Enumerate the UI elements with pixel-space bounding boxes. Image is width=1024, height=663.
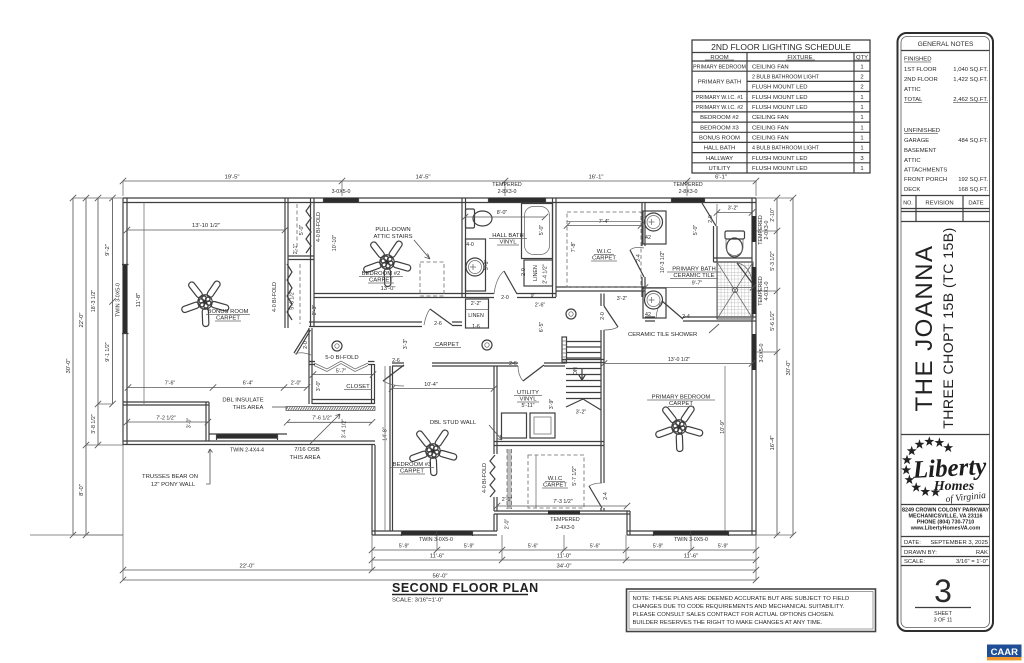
window tempered 4-0x1-0 right wall [752,267,756,314]
svg-text:FRONT PORCH: FRONT PORCH [904,177,947,183]
svg-text:14'-8": 14'-8" [383,427,389,441]
svg-text:DRAWN BY:: DRAWN BY: [904,550,937,556]
left dimension 30-0 [72,198,74,535]
svg-text:REVISION: REVISION [925,201,953,207]
svg-text:168 SQ.FT.: 168 SQ.FT. [958,187,988,193]
bonus room dim 13-10 [127,229,285,231]
utility top wall [497,363,518,366]
svg-text:TRUSSES BEAR ON: TRUSSES BEAR ON [142,474,198,480]
svg-text:14'-5": 14'-5" [415,175,430,181]
svg-text:4-0 BI-FOLD: 4-0 BI-FOLD [316,212,322,242]
osb insulated wall hatch [286,407,375,411]
lower left exterior wall [123,441,375,445]
svg-text:3-0X5-0: 3-0X5-0 [332,189,351,195]
svg-text:2 BULB BATHROOM LIGHT: 2 BULB BATHROOM LIGHT [752,75,820,81]
svg-text:UTILITY: UTILITY [517,390,539,396]
svg-text:BONUS ROOM: BONUS ROOM [208,309,249,315]
toilet room bottom wall [714,258,753,262]
svg-text:5'-11": 5'-11" [521,403,534,409]
svg-text:10'-3 1/2": 10'-3 1/2" [660,251,666,273]
svg-text:TWIN 3-0X5-0: TWIN 3-0X5-0 [674,537,708,543]
svg-text:FINISHED: FINISHED [904,57,932,63]
svg-text:BEDROOM #2: BEDROOM #2 [362,271,401,277]
svg-text:2'-2": 2'-2" [471,301,482,307]
svg-text:HALLWAY: HALLWAY [706,156,733,162]
svg-text:SHEET: SHEET [934,611,952,617]
svg-text:2-0: 2-0 [708,215,714,223]
window twin 3-0x5-0 left wall [123,265,127,333]
svg-text:4 BULB BATHROOM LIGHT: 4 BULB BATHROOM LIGHT [752,146,820,152]
svg-text:ATTIC: ATTIC [904,87,921,93]
bottom dimension row 22-0 34-0 [123,569,756,571]
date row [901,537,990,547]
svg-text:1: 1 [860,95,863,101]
svg-text:34'-0": 34'-0" [556,564,571,570]
window 3-0x5-0 right wall [752,334,756,370]
svg-text:192 SQ.FT.: 192 SQ.FT. [958,177,988,183]
pony step wall [206,402,209,441]
svg-text:CERAMIC TILE SHOWER: CERAMIC TILE SHOWER [628,332,697,338]
bottom dimension row 11-6 [372,559,756,561]
svg-text:PRIMARY BATH: PRIMARY BATH [698,80,742,86]
wic step wall [494,514,497,531]
svg-text:1: 1 [860,115,863,121]
svg-text:TWIN 3-0X5-0: TWIN 3-0X5-0 [419,537,453,543]
door utility 2-6 [523,365,544,381]
svg-text:CERAMIC TILE: CERAMIC TILE [673,273,714,279]
flush mount light nook [332,341,342,351]
note box [627,589,876,632]
svg-text:CHANGES DUE TO CODE REQUIREMEN: CHANGES DUE TO CODE REQUIREMENTS AND MEC… [633,604,845,610]
svg-text:30'-0": 30'-0" [786,360,792,375]
svg-text:6'-4": 6'-4" [243,381,254,387]
dryer utility [530,413,555,438]
svg-text:5'-9": 5'-9" [464,544,475,550]
svg-text:CARPET: CARPET [669,401,693,407]
logo section divider [901,434,990,436]
svg-text:11'-6": 11'-6" [684,554,699,560]
svg-text:PULL-DOWN: PULL-DOWN [375,227,410,233]
svg-text:5'-6": 5'-6" [590,544,601,550]
toilet hall bath [466,209,475,228]
bottom dimension row segments 5-9 [372,549,756,551]
svg-text:3: 3 [934,573,952,609]
svg-text:1: 1 [860,136,863,142]
svg-text:42: 42 [645,235,651,241]
svg-text:3'-0": 3'-0" [316,381,322,392]
door stairs top 2-0 [604,306,618,327]
svg-text:11'-6": 11'-6" [430,554,445,560]
svg-text:4-0 BI-FOLD: 4-0 BI-FOLD [272,282,278,312]
flush mount light hall east [566,309,576,319]
shower glass door [737,263,753,284]
svg-text:12" PONY WALL: 12" PONY WALL [151,482,196,488]
svg-text:7'-2 1/2": 7'-2 1/2" [156,416,176,422]
svg-text:NOTE: THESE PLANS ARE DEEMED A: NOTE: THESE PLANS ARE DEEMED ACCURATE BU… [633,596,850,602]
wic front wall [494,511,630,514]
window tempered 2-4x3-0 wic front [548,510,580,514]
svg-text:1,422 SQ.FT.: 1,422 SQ.FT. [953,77,988,83]
svg-text:5'-6 1/2": 5'-6 1/2" [770,311,776,331]
door nook 2-0 [294,329,311,355]
top exterior wall [123,198,756,203]
Liberty logo stars [943,443,953,453]
svg-text:PRIMARY W.I.C. #2: PRIMARY W.I.C. #2 [696,105,743,111]
svg-text:2'-6": 2'-6" [535,303,546,309]
title block outer border [898,33,994,631]
svg-text:1: 1 [860,146,863,152]
svg-text:2'-4 1/2": 2'-4 1/2" [543,264,549,284]
svg-text:6'-1": 6'-1" [715,175,727,181]
window 3-0x5-0 bedroom2 top [324,198,358,202]
svg-text:3-0X5-0: 3-0X5-0 [759,344,765,363]
svg-text:19'-5": 19'-5" [224,175,239,181]
svg-text:2'-10": 2'-10" [770,208,776,222]
CAAR logo [987,645,1022,658]
door primary bath 2-4 [662,301,683,319]
bedroom3 top wall [392,363,404,366]
svg-text:TOTAL: TOTAL [904,97,923,103]
pony knee wall upper [123,402,209,405]
svg-text:22'-0": 22'-0" [79,312,85,327]
svg-text:TWIN 3-0X5-0: TWIN 3-0X5-0 [116,283,122,317]
svg-text:1: 1 [860,166,863,172]
svg-text:TEMPERED: TEMPERED [550,517,580,523]
svg-text:9'-7": 9'-7" [692,281,703,287]
svg-text:BONUS ROOM: BONUS ROOM [699,136,740,142]
svg-text:CARPET: CARPET [435,342,459,348]
bifold door bedroom2 closet [306,204,311,253]
svg-text:9'-2": 9'-2" [105,244,111,256]
svg-text:THIS AREA: THIS AREA [290,455,321,461]
svg-text:7/16 OSB: 7/16 OSB [294,447,320,453]
svg-text:3/16" = 1'-0": 3/16" = 1'-0" [956,559,988,565]
svg-text:GARAGE: GARAGE [904,138,929,144]
window twin 2-4x4-4 pony wall [217,434,277,438]
dbl stud wall shaded [507,449,512,509]
svg-text:5'-6 1/2": 5'-6 1/2" [290,290,296,310]
washer utility [502,413,527,438]
svg-text:5'-9": 5'-9" [399,544,410,550]
window tempered 2-8x3-0 hall bath [489,198,545,202]
bedroom2 hall bath bottom wall [314,294,494,298]
stairwell right wall [601,294,604,512]
svg-text:ATTIC STAIRS: ATTIC STAIRS [373,234,412,240]
tub hall bath [522,204,553,259]
svg-text:PRIMARY W.I.C. #1: PRIMARY W.I.C. #1 [696,95,743,101]
svg-text:DATE:: DATE: [904,540,921,546]
svg-text:THIS AREA: THIS AREA [233,405,264,411]
svg-text:5'-0": 5'-0" [299,225,305,236]
svg-text:CEILING FAN: CEILING FAN [752,64,789,70]
svg-text:9": 9" [531,293,536,299]
svg-text:CEILING FAN: CEILING FAN [752,136,789,142]
svg-text:5'-3 1/2": 5'-3 1/2" [770,251,776,271]
svg-text:BEDROOM #3: BEDROOM #3 [393,462,432,468]
svg-text:2-6: 2-6 [509,361,517,367]
right exterior wall [752,198,756,535]
wic2 shelving dashed [528,455,584,508]
svg-text:2'-0": 2'-0" [291,381,302,387]
svg-text:CARPET: CARPET [216,316,240,322]
svg-text:2-4X3-0: 2-4X3-0 [556,525,575,531]
svg-text:10'-10": 10'-10" [332,235,338,252]
address block [901,504,990,506]
svg-text:1: 1 [860,64,863,70]
svg-text:SEPTEMBER 3, 2025: SEPTEMBER 3, 2025 [930,540,988,546]
bifold door hall closet 5-0 [314,361,368,372]
svg-text:3'-3": 3'-3" [403,339,409,350]
svg-text:4-0: 4-0 [466,242,474,248]
linen closet hall bath [524,260,553,286]
window tempered 2-8x3-0 primary bath [672,198,704,202]
front wall right section [627,531,756,535]
svg-text:5-0 BI-FOLD: 5-0 BI-FOLD [325,355,358,361]
svg-text:BEDROOM #3: BEDROOM #3 [700,125,739,131]
front step right [627,511,630,535]
bifold door bonus closet [287,264,292,320]
door bonus closet 2-6 [430,309,452,325]
svg-text:16'-1": 16'-1" [588,175,603,181]
utility bottom wall [494,442,604,446]
scale row [901,565,990,567]
bedroom3 left wall [390,366,393,531]
svg-text:2'-3": 2'-3" [312,305,318,316]
bonus room dim 11-8 [143,203,145,405]
svg-text:2-6: 2-6 [392,358,400,364]
svg-text:PRIMARY BEDROOM: PRIMARY BEDROOM [693,64,746,70]
svg-text:DBL STUD WALL: DBL STUD WALL [430,420,477,426]
bifold door wic2 4-0 [490,455,495,497]
door toilet room 2-0 [702,203,716,226]
wic1 bottom wall [556,287,645,291]
svg-text:HALL BATH: HALL BATH [492,233,523,239]
svg-text:BASEMENT: BASEMENT [904,148,937,154]
svg-text:2-0X3-0: 2-0X3-0 [764,221,770,240]
svg-text:CAAR: CAAR [991,647,1019,658]
ceiling fan primary bedroom [652,398,710,457]
right dimension 30-0 [792,198,794,535]
toilet room partition [714,226,718,262]
svg-text:2-8X3-0: 2-8X3-0 [498,189,517,195]
svg-text:DATE: DATE [968,201,983,207]
bonus room right wall [285,198,288,328]
svg-text:5'-7 1/2": 5'-7 1/2" [572,466,578,486]
svg-text:VINYL: VINYL [499,240,517,246]
svg-text:PLEASE CONSULT SALES CONTRACT: PLEASE CONSULT SALES CONTRACT FOR ACTUAL… [633,612,835,618]
svg-text:2: 2 [860,75,863,81]
svg-text:DBL INSULATE: DBL INSULATE [222,398,263,404]
svg-text:5'-0": 5'-0" [693,225,699,236]
door bedroom3 2-6 [383,365,404,381]
svg-text:TEMPERED: TEMPERED [492,182,522,188]
svg-text:CARPET: CARPET [400,469,424,475]
stairs lower treads [566,369,601,399]
attic stairs dashed box [420,262,444,296]
svg-text:CARPET: CARPET [592,256,616,262]
bifold closet right wall [311,198,315,326]
stairs break line [566,399,601,410]
left dimension 9-2 9-1 [112,198,114,404]
svg-text:TWIN 2-4X4-4: TWIN 2-4X4-4 [230,448,264,454]
svg-text:22'-0": 22'-0" [239,564,254,570]
linen closet hallway [466,299,489,328]
top dimension line 19-5 14-5 16-1 6-1 [123,180,756,182]
svg-text:56'-0": 56'-0" [432,574,447,580]
svg-text:HALL BATH: HALL BATH [704,146,735,152]
svg-text:PRIMARY BEDROOM: PRIMARY BEDROOM [652,395,711,401]
svg-text:16'-4": 16'-4" [770,435,776,450]
svg-text:ATTIC: ATTIC [904,158,921,164]
shower enclosure [717,262,753,319]
svg-text:3 OF 11: 3 OF 11 [934,618,953,624]
svg-text:42: 42 [645,312,651,318]
hall closet walls [309,328,375,404]
svg-text:PRIMARY BATH: PRIMARY BATH [672,267,716,273]
wic1 right wall [642,203,645,298]
svg-text:3'-4 1/2": 3'-4 1/2" [342,419,348,439]
svg-text:FLUSH MOUNT LED: FLUSH MOUNT LED [752,156,808,162]
stairs railing [562,337,567,363]
door hall bath [504,271,517,294]
svg-text:3'-2": 3'-2" [617,296,628,302]
svg-text:DECK: DECK [904,187,920,193]
svg-text:1: 1 [860,105,863,111]
svg-text:LINEN: LINEN [533,265,539,281]
svg-text:3'-8 1/2": 3'-8 1/2" [91,414,97,434]
svg-text:7'-4": 7'-4" [599,219,610,225]
door primary bedroom 2-4 [589,486,602,508]
wic1 shelving dashed [567,212,641,287]
svg-text:CLOSET: CLOSET [346,384,370,390]
svg-text:7'-3 1/2": 7'-3 1/2" [553,499,573,505]
svg-text:2-8X3-0: 2-8X3-0 [679,189,698,195]
front wall step left [372,445,375,535]
svg-text:UNFINISHED: UNFINISHED [904,128,940,134]
svg-text:5'-6": 5'-6" [484,260,490,271]
svg-text:5'-6": 5'-6" [528,544,539,550]
svg-text:3'-0": 3'-0" [187,418,193,429]
door wic1 2-4 [630,250,644,277]
left dimension 22-0 8-0 [85,198,87,535]
ceiling fan bedroom3 [406,422,464,481]
svg-text:2-0: 2-0 [501,295,509,301]
svg-text:2-4: 2-4 [603,492,609,500]
ceiling fan bonus room [178,273,236,332]
stair hall mid wall [562,360,604,363]
svg-text:DN: DN [573,367,579,375]
svg-text:CARPET: CARPET [369,278,393,284]
svg-text:8'-0": 8'-0" [497,210,508,216]
wic1 labels [567,225,641,227]
svg-text:THE JOANNA: THE JOANNA [911,244,938,411]
svg-text:5'-9": 5'-9" [718,544,729,550]
right dimension segments [776,198,778,231]
bottom dimension row 56-0 [123,579,756,581]
svg-text:7'-6 1/2": 7'-6 1/2" [312,416,332,422]
vanity hall bath [466,239,486,291]
svg-text:11'-8": 11'-8" [136,293,142,308]
svg-text:www.LibertyHomesVA.com: www.LibertyHomesVA.com [910,526,981,532]
svg-text:10'-4": 10'-4" [424,382,438,388]
svg-text:3'-2": 3'-2" [728,206,739,212]
svg-text:FLUSH MOUNT LED: FLUSH MOUNT LED [752,85,808,91]
svg-text:484 SQ.FT.: 484 SQ.FT. [958,138,988,144]
svg-text:2'-1": 2'-1" [293,244,299,255]
svg-text:2-6: 2-6 [434,321,442,327]
svg-text:SECOND FLOOR PLAN: SECOND FLOOR PLAN [392,581,539,595]
svg-text:SCALE: 3/16"=1'-0": SCALE: 3/16"=1'-0" [392,598,443,604]
svg-text:NO.: NO. [903,201,912,207]
svg-text:5'-7": 5'-7" [336,369,347,375]
svg-text:3'-9": 3'-9" [549,399,555,410]
front wall left section [372,531,497,535]
tub linen right wall [553,198,557,297]
svg-text:13'-0": 13'-0" [380,286,395,292]
svg-text:7'-8": 7'-8" [571,242,577,253]
toilet primary bath [725,231,745,239]
svg-text:4-0 BI-FOLD: 4-0 BI-FOLD [482,463,488,493]
svg-text:13'-0 1/2": 13'-0 1/2" [668,357,690,363]
svg-text:8'-0": 8'-0" [79,484,85,496]
pony wall dims [128,387,213,389]
svg-text:9'-1 1/2": 9'-1 1/2" [105,342,111,362]
svg-text:BUILDER RESERVES THE RIGHT TO: BUILDER RESERVES THE RIGHT TO MAKE CHANG… [633,620,823,626]
svg-text:2-0: 2-0 [303,341,309,349]
svg-text:SCALE:: SCALE: [904,559,925,565]
svg-text:CEILING FAN: CEILING FAN [752,115,789,121]
window twin 3-0x5-0 front right [654,531,728,535]
svg-text:ATTACHMENTS: ATTACHMENTS [904,168,947,174]
hall low wall with closet [309,322,422,327]
svg-text:2-0: 2-0 [600,312,606,320]
utility left wall / wic2 left wall [494,366,497,454]
left exterior wall [123,198,127,445]
svg-text:2ND FLOOR: 2ND FLOOR [904,77,938,83]
svg-text:BEDROOM #2: BEDROOM #2 [700,115,739,121]
vanity primary bath upper [643,211,666,244]
svg-text:1,040 SQ.FT.: 1,040 SQ.FT. [953,67,988,73]
svg-text:6'-5": 6'-5" [539,322,545,333]
svg-text:18'-3 1/2": 18'-3 1/2" [91,290,97,312]
svg-text:11'-0": 11'-0" [557,554,572,560]
revision table [901,196,990,222]
svg-text:2'-0": 2'-0" [505,519,511,530]
svg-text:TEMPERED: TEMPERED [673,182,703,188]
svg-text:W.I.C: W.I.C [597,249,612,255]
svg-text:2,462 SQ.FT.: 2,462 SQ.FT. [953,97,988,103]
window tempered 2-0x3-0 right wall [752,216,756,242]
svg-text:2-0: 2-0 [521,268,527,276]
left dimension 18-3 3-8 [97,198,99,445]
svg-text:FLUSH MOUNT LED: FLUSH MOUNT LED [752,105,808,111]
hall bath left wall [462,198,466,297]
svg-text:LINEN: LINEN [468,313,484,319]
svg-text:VINYL: VINYL [519,397,537,403]
svg-text:UTILITY: UTILITY [709,166,731,172]
svg-text:FLUSH MOUNT LED: FLUSH MOUNT LED [752,166,808,172]
svg-text:CARPET: CARPET [543,483,567,489]
svg-text:5'-0": 5'-0" [539,225,545,236]
svg-text:CEILING FAN: CEILING FAN [752,125,789,131]
primary bath bottom wall [645,317,655,321]
svg-text:3'-2": 3'-2" [576,410,587,416]
bottom extension lines [30,445,756,580]
vanity primary bath lower [643,288,666,318]
flush mount light hall center [482,340,492,350]
svg-text:1ST FLOOR: 1ST FLOOR [904,67,937,73]
svg-text:1: 1 [860,125,863,131]
